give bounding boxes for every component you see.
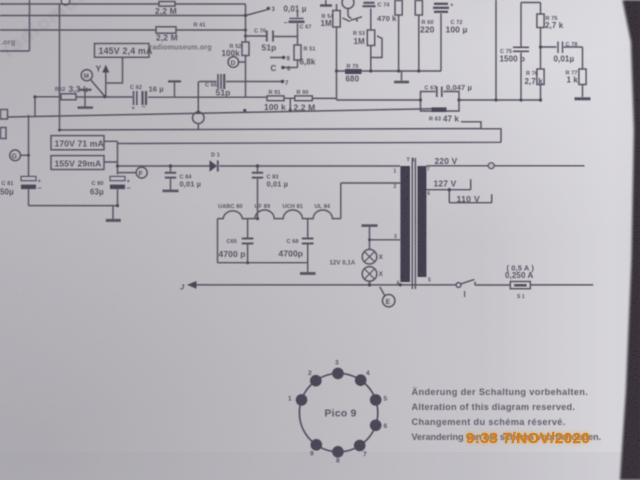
svg-text:9:33 7/NOV/2020: 9:33 7/NOV/2020 xyxy=(466,430,590,447)
